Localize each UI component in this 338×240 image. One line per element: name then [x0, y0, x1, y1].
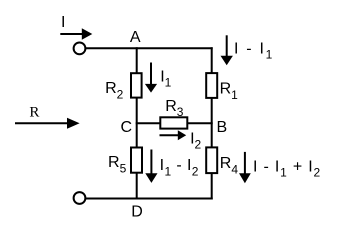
svg-text:B: B — [217, 119, 228, 136]
svg-text:R2: R2 — [105, 80, 124, 101]
svg-text:R4: R4 — [220, 155, 239, 176]
svg-text:C: C — [121, 119, 133, 136]
svg-text:I1 - I2: I1 - I2 — [160, 157, 199, 178]
svg-text:I - I1 + I2: I - I1 + I2 — [253, 158, 321, 179]
svg-text:I2: I2 — [190, 130, 201, 151]
svg-text:R1: R1 — [220, 81, 239, 102]
svg-text:R3: R3 — [165, 98, 184, 119]
svg-text:D: D — [131, 204, 143, 221]
svg-text:I: I — [61, 14, 65, 31]
svg-text:I - I1: I - I1 — [234, 40, 274, 61]
svg-text:R: R — [29, 104, 39, 120]
svg-text:I1: I1 — [160, 68, 171, 89]
svg-text:A: A — [130, 29, 141, 46]
svg-text:R5: R5 — [108, 154, 127, 175]
